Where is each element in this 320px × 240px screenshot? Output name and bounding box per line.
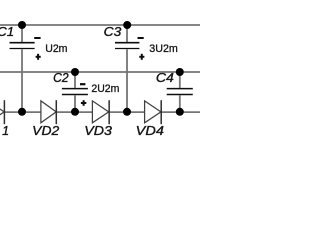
capacitor C3 [115,25,139,112]
svg-text:C2: C2 [53,71,69,85]
wire: diode row segment VD1-bar to VD2 [4,111,41,113]
svg-text:2U2m: 2U2m [91,83,119,95]
capacitor C2 [62,72,88,112]
junction dot top rail / C3 [123,21,131,29]
junction dot top rail / C1 [18,21,26,29]
junction dot diode row / C1 [18,108,26,116]
capacitor C1 [10,25,35,112]
wire: diode row segment VD2-bar to VD3 [56,111,92,113]
svg-text:U2m: U2m [45,43,67,55]
C3 minus sign [138,37,144,39]
wire: top rail [0,24,200,26]
svg-text:VD3: VD3 [84,124,112,138]
svg-text:C3: C3 [104,25,122,39]
svg-text:3U2m: 3U2m [149,43,178,55]
C2 minus sign [80,83,85,85]
C1 minus sign [34,37,40,39]
wire: diode row segment VD3-bar to VD4 [109,111,145,113]
svg-text:1: 1 [2,124,9,138]
wire: diode row segment VD4-bar to right edge [161,111,200,113]
C3 plus sign [139,54,144,60]
junction dot middle rail / C4 [176,68,184,76]
C1 plus sign [36,54,41,60]
diode VD2 [41,100,56,124]
diode VD4 [145,100,162,124]
capacitor C4 [167,72,193,112]
svg-text:VD2: VD2 [32,124,59,138]
svg-text:VD4: VD4 [136,124,164,138]
junction dot diode row / C2 [71,108,79,116]
svg-text:C1: C1 [0,25,14,39]
junction dot middle rail / C2 [71,68,79,76]
C2 plus sign [81,100,86,106]
junction dot diode row / C4 [176,108,184,116]
junction dot diode row / C3 [123,108,131,116]
wire: middle rail [0,71,200,73]
diode VD3 [92,100,109,124]
svg-text:C4: C4 [156,71,174,85]
diode VD1 (cut off at left edge) [0,100,4,124]
